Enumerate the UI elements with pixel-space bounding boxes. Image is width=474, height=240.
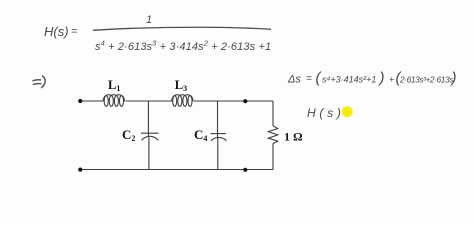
- svg-text:1: 1: [146, 14, 152, 26]
- svg-text:Δs: Δs: [287, 74, 301, 86]
- svg-text:s⁴+3·414s²+1: s⁴+3·414s²+1: [322, 75, 376, 85]
- svg-text:): ): [450, 69, 457, 86]
- svg-text:L3: L3: [175, 78, 187, 93]
- svg-text:s4 + 2·613s3 + 3·414s2 + 2·613: s4 + 2·613s3 + 3·414s2 + 2·613s +1: [95, 39, 271, 54]
- svg-text:1 Ω: 1 Ω: [284, 130, 303, 144]
- svg-text:): ): [378, 69, 385, 86]
- svg-text:L1: L1: [108, 78, 120, 93]
- svg-text:C2: C2: [122, 127, 135, 143]
- svg-text:2·613s³+2·613s: 2·613s³+2·613s: [399, 75, 454, 85]
- svg-text:=: =: [71, 26, 78, 38]
- svg-text:C4: C4: [194, 127, 207, 143]
- svg-text:=: =: [306, 74, 312, 85]
- svg-text:+: +: [389, 75, 394, 85]
- svg-text:H(s): H(s): [44, 24, 69, 39]
